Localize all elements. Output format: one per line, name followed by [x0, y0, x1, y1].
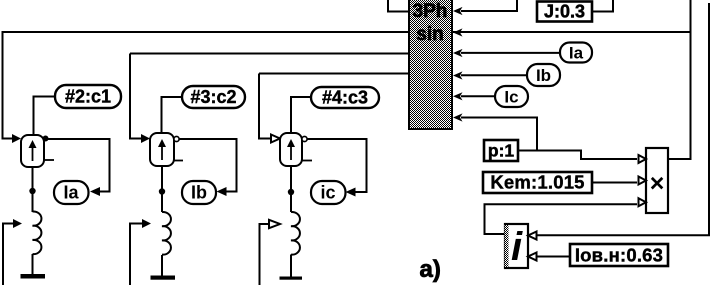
inductor L1 [33, 211, 42, 254]
wire from p:1 branch to 3Ph port6 [461, 118, 537, 151]
controlled current source U1 [21, 135, 54, 167]
inductor L3 [291, 212, 300, 255]
svg-text:i: i [511, 225, 523, 269]
wire branch2 bottom feed with arrow [130, 224, 142, 285]
wire source U1 output loop to goto Ia [44, 139, 110, 192]
svg-text:sin: sin [416, 24, 443, 45]
controlled current source U2 [150, 133, 183, 166]
ground branch3 [280, 277, 303, 280]
goto tag Ia [54, 181, 89, 204]
wire 3Ph port1 from top [461, 0, 517, 11]
tag #2:c1 [55, 85, 121, 108]
svg-text:Ic: Ic [504, 88, 518, 107]
wire inductor L3 to ground [290, 255, 292, 277]
arrow into multiplier in3 [639, 198, 647, 206]
multiplier block [646, 148, 668, 213]
wire long feedback net y=32 from left edge to x=690 [3, 31, 691, 33]
wire 3Ph input1 elbow from top [388, 0, 409, 12]
constant Iov.n:0.63 [570, 244, 668, 266]
arrow into source U1 input [12, 134, 21, 143]
svg-text:3Ph: 3Ph [413, 1, 448, 22]
arrow into goto ic [346, 188, 356, 197]
arrow into integrator in1 [528, 232, 537, 240]
arrow into multiplier in2 [639, 177, 647, 185]
wire inductor L2 to ground [161, 255, 163, 276]
node branch1 [29, 188, 35, 194]
wire tag #3:c2 to source U2 top [162, 97, 183, 133]
svg-text:#3:c2: #3:c2 [190, 87, 236, 107]
arrow into 3Ph port1 [453, 7, 463, 15]
svg-text:Ia: Ia [569, 44, 584, 63]
wire branch3 bottom feed with arrow (open) [260, 224, 270, 285]
ground branch2 [151, 276, 176, 280]
wire source U3 output loop to goto ic [307, 139, 367, 192]
svg-text:#2:c1: #2:c1 [65, 87, 111, 107]
arrow into integrator in2 [528, 253, 537, 261]
goto tag ic [311, 181, 346, 204]
block 3Ph sin measurement [409, 0, 452, 129]
wire branch1 left feed vertical [3, 31, 13, 139]
svg-text:Ia: Ia [63, 183, 79, 203]
svg-text:J:0.3: J:0.3 [544, 2, 585, 22]
from tag Ib [527, 64, 560, 86]
svg-text:Kem:1.015: Kem:1.015 [490, 172, 584, 193]
wire Kem output to multiplier [592, 182, 637, 184]
arrow into 3Ph port4 [453, 71, 463, 79]
controlled current source U3 [280, 133, 312, 166]
tag #4:c3 [311, 87, 379, 108]
arrow into 3Ph port5 [453, 92, 463, 100]
svg-text:Iов.н:0.63: Iов.н:0.63 [575, 245, 663, 266]
constant p:1 [484, 140, 518, 161]
wire branch1 bottom feed with arrow [3, 224, 13, 285]
wire J:0.3 output to top [592, 0, 613, 12]
ground branch1 [21, 274, 46, 279]
node branch3 [288, 189, 294, 195]
goto tag Ib [182, 181, 216, 204]
svg-text:Ib: Ib [536, 66, 551, 85]
wire inductor L1 to ground [32, 254, 34, 274]
wire branch3 feed from net y=73.5 [259, 74, 409, 139]
svg-text:p:1: p:1 [488, 141, 515, 161]
wire multiplier output feedback up [668, 0, 691, 159]
wire right edge net into integrator in1 [536, 3, 709, 235]
wire source U3 to inductor L3 [290, 166, 292, 212]
wire source U2 output loop to goto Ib [179, 139, 237, 192]
wire from tag Ib to 3Ph port4 [461, 74, 527, 76]
wire from tag Ic to 3Ph port5 [461, 95, 495, 97]
wire Iov.n to integrator in2 [536, 256, 570, 258]
arrow into multiplier in1 [639, 155, 647, 163]
arrow into goto Ia [90, 187, 100, 196]
from tag Ia [560, 43, 592, 63]
arrow into 3Ph port6 [453, 113, 463, 121]
svg-text:a): a) [420, 256, 441, 283]
wire tag #4:c3 to source U3 top [291, 97, 311, 133]
arrow into goto Ib [217, 187, 227, 196]
arrow into source U2 input [141, 134, 150, 143]
svg-text:×: × [650, 170, 665, 198]
wire tag #2:c1 to source U1 top [34, 97, 56, 136]
tag #3:c2 [182, 86, 245, 108]
constant J:0.3 [537, 2, 592, 22]
from tag Ic [495, 86, 528, 107]
arrow into source U3 input (open) [271, 135, 280, 143]
arrow into 3Ph port2 (feedback net) [453, 28, 463, 36]
wire branch2 feed from net y=53.5 [130, 54, 409, 139]
wire integrator output to multiplier in3 [485, 204, 638, 234]
wire source U1 to inductor L1 [32, 167, 34, 212]
integrator block i [505, 224, 529, 269]
svg-text:Ib: Ib [191, 183, 207, 203]
constant Kem:1.015 [483, 172, 592, 194]
arrow into 3Ph port3 [453, 49, 463, 57]
svg-text:ic: ic [320, 183, 335, 203]
inductor L2 [162, 212, 171, 255]
wire from tag Ia to 3Ph port3 [461, 52, 560, 54]
wire p:1 output to multiplier [518, 151, 637, 160]
wire source U2 to inductor L2 [161, 166, 163, 212]
svg-text:#4:c3: #4:c3 [322, 88, 368, 108]
node branch2 [159, 188, 165, 194]
